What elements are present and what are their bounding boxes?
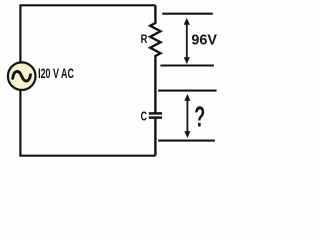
svg-text:I20 V AC: I20 V AC xyxy=(38,66,74,81)
svg-text:C: C xyxy=(141,110,147,124)
svg-text:R: R xyxy=(141,33,148,46)
svg-text:96V: 96V xyxy=(191,33,217,49)
svg-text:?: ? xyxy=(194,101,205,133)
